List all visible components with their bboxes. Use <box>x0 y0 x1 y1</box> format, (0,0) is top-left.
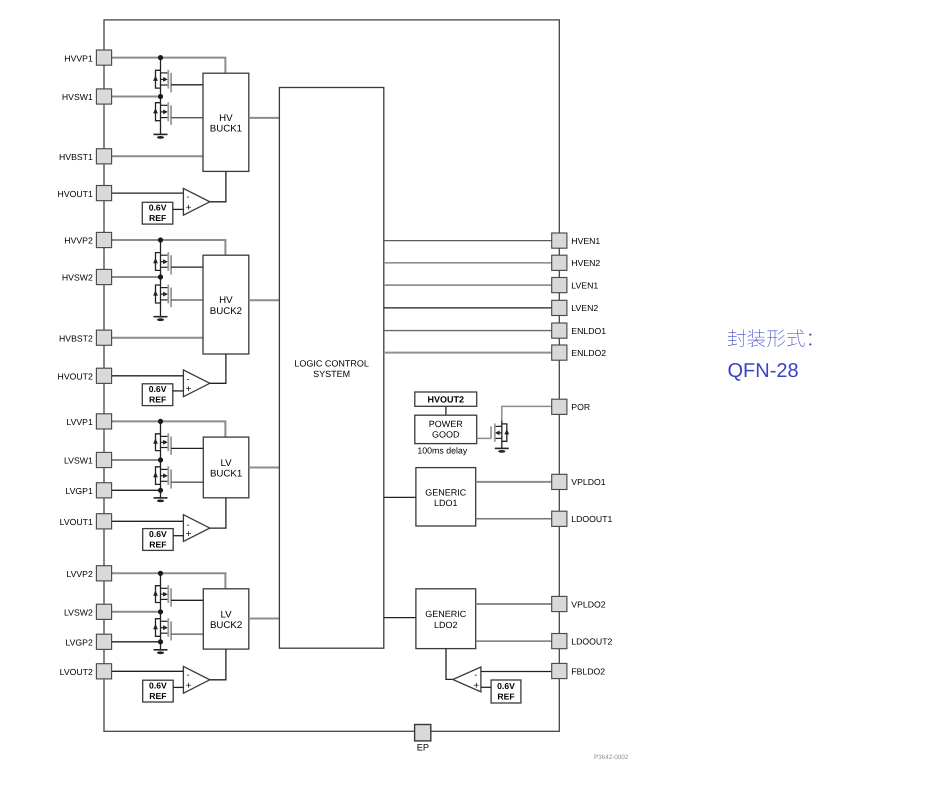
node SW2 junction <box>158 274 163 279</box>
node SW1 junction <box>158 94 163 99</box>
pin POR <box>552 399 590 414</box>
pin VPLDO2 <box>552 596 606 611</box>
ground section 4 <box>154 650 168 654</box>
svg-text:SYSTEM: SYSTEM <box>313 369 350 379</box>
svg-text:+: + <box>186 203 192 214</box>
wire LVVP3 supply rail <box>112 421 226 437</box>
svg-text:LVEN2: LVEN2 <box>571 303 598 313</box>
svg-text:LVVP1: LVVP1 <box>66 417 93 427</box>
pin LVEN2 <box>552 300 599 315</box>
wire LVGP4 gate drive <box>112 641 161 643</box>
svg-text:0.6V: 0.6V <box>149 203 167 213</box>
svg-text:LV: LV <box>221 458 233 469</box>
svg-text:LDO2: LDO2 <box>434 620 458 630</box>
svg-text:HV: HV <box>219 295 233 306</box>
svg-text:REF: REF <box>149 213 166 223</box>
pin ENLDO2 <box>552 345 607 360</box>
gate lead low-side MOSFET Q3b <box>171 481 203 483</box>
wire logic to LDO2 enable <box>384 617 416 619</box>
wire HVOUT2 feedback <box>112 375 184 377</box>
svg-text:HVSW2: HVSW2 <box>62 273 93 283</box>
wire LDO2 to feedback comparator <box>446 649 453 680</box>
wire SW node <box>112 96 161 98</box>
svg-text:POR: POR <box>571 402 590 412</box>
wire comparator output to HV BUCK2 <box>210 354 226 383</box>
wire FBLDO2 to comparator - input <box>481 671 552 673</box>
svg-text:FBLDO2: FBLDO2 <box>571 666 605 676</box>
svg-text:HVOUT1: HVOUT1 <box>58 189 93 199</box>
ground section 1 <box>154 134 168 138</box>
wire comparator output to HV BUCK1 <box>210 171 226 201</box>
gate lead high-side MOSFET Q1a <box>171 84 203 86</box>
IC outer boundary <box>104 20 559 731</box>
wire MOSFET channel string section 4 <box>160 573 162 650</box>
svg-text:LVOUT1: LVOUT1 <box>60 517 93 527</box>
ground section 3 <box>154 498 168 502</box>
pin VPLDO1 <box>552 474 606 489</box>
wire LDOOUT2 <box>476 640 552 642</box>
node VP4 junction <box>158 571 163 576</box>
wire LVGP3 gate drive <box>112 489 161 491</box>
block LV BUCK1 <box>203 437 249 498</box>
wire LVEN2 enable <box>384 307 552 309</box>
pin LVVP1 <box>66 414 111 429</box>
wire HV BUCK2 output to logic <box>249 299 280 301</box>
block HV BUCK2 <box>203 255 249 354</box>
wire HVEN1 enable <box>384 240 552 242</box>
wire ENLDO2 enable <box>384 352 552 354</box>
svg-text:0.6V: 0.6V <box>149 384 167 394</box>
pin LVGP1 <box>65 483 111 498</box>
svg-text:LVSW1: LVSW1 <box>64 456 93 466</box>
0.6V reference section 1 <box>142 202 173 224</box>
wire HVOUT2 box to POWER GOOD <box>445 406 447 415</box>
wire 0.6V REF to comparator + input <box>481 686 491 688</box>
gate lead high-side MOSFET Q4a <box>171 599 203 601</box>
svg-text:EP: EP <box>417 743 429 753</box>
svg-text:HVEN2: HVEN2 <box>571 258 600 268</box>
wire comparator output to LV BUCK2 <box>210 649 226 680</box>
svg-text:HVVP2: HVVP2 <box>64 236 93 246</box>
wire MOSFET channel string section 2 <box>160 240 162 317</box>
wire HVEN2 enable <box>384 262 552 264</box>
node VP3 junction <box>158 419 163 424</box>
node VP1 junction <box>158 55 163 60</box>
svg-text:ENLDO2: ENLDO2 <box>571 348 606 358</box>
svg-text:GENERIC: GENERIC <box>425 487 467 497</box>
svg-text:ENLDO1: ENLDO1 <box>571 326 606 336</box>
0.6V reference LDO2 <box>491 680 521 703</box>
block POWER GOOD <box>415 415 477 443</box>
wire LVOUT3 feedback <box>112 520 184 522</box>
ground POR switch <box>495 448 509 452</box>
svg-text:LVOUT2: LVOUT2 <box>60 667 93 677</box>
wire VPLDO2 <box>476 603 552 605</box>
pin HVBST2 <box>59 330 112 345</box>
wire VPLDO1 <box>476 481 552 483</box>
svg-text:HVBST1: HVBST1 <box>59 152 93 162</box>
svg-text:+: + <box>186 681 192 692</box>
node GP4 junction <box>158 639 163 644</box>
node SW4 junction <box>158 609 163 614</box>
error comparator section 4 <box>183 666 209 693</box>
wire 0.6V REF to comparator + input <box>173 390 184 392</box>
label package type (Chinese) <box>728 329 812 347</box>
svg-text:HV: HV <box>219 113 233 124</box>
wire HVOUT1 feedback <box>112 192 184 194</box>
wire MOSFET channel string section 1 <box>160 58 162 135</box>
wire HVBST2 bootstrap <box>112 337 203 339</box>
low-side MOSFET Q1b <box>153 102 171 125</box>
svg-text:BUCK1: BUCK1 <box>210 469 242 480</box>
svg-text:0.6V: 0.6V <box>497 681 515 691</box>
svg-text:BUCK2: BUCK2 <box>210 620 242 631</box>
wire SW node <box>112 459 161 461</box>
svg-text:REF: REF <box>149 539 166 549</box>
pin HVEN2 <box>552 255 601 270</box>
gate lead high-side MOSFET Q3a <box>171 447 203 449</box>
svg-text:REF: REF <box>149 691 166 701</box>
block GENERIC LDO1 <box>416 468 476 526</box>
wire 0.6V REF to comparator + input <box>173 208 184 210</box>
node SW3 junction <box>158 457 163 462</box>
svg-text:VPLDO1: VPLDO1 <box>571 477 605 487</box>
svg-text:QFN-28: QFN-28 <box>728 360 799 382</box>
wire LV BUCK2 output to logic <box>249 618 280 620</box>
wire logic to LDO1 enable <box>384 496 416 498</box>
pin LVSW2 <box>64 604 112 619</box>
0.6V reference section 2 <box>142 384 173 406</box>
svg-text:LOGIC CONTROL: LOGIC CONTROL <box>294 358 369 368</box>
wire LVOUT4 feedback <box>112 670 184 672</box>
pin HVSW1 <box>62 89 112 104</box>
transistor Q5 POR open-drain <box>491 421 509 449</box>
pin LDOOUT2 <box>552 634 613 649</box>
pin LVGP2 <box>65 634 111 649</box>
feedback comparator LDO2 <box>453 667 481 692</box>
ground section 2 <box>154 317 168 321</box>
wire HV BUCK1 output to logic <box>249 117 280 119</box>
svg-text:0.6V: 0.6V <box>149 681 167 691</box>
wire HVBST1 bootstrap <box>112 155 203 157</box>
pin HVOUT2 <box>58 368 112 383</box>
pin ENLDO1 <box>552 323 607 338</box>
0.6V reference section 4 <box>143 680 174 702</box>
block HV BUCK1 <box>203 73 249 171</box>
error comparator section 3 <box>183 515 209 542</box>
gate lead low-side MOSFET Q2b <box>171 299 203 301</box>
wire LVVP4 supply rail <box>112 573 226 589</box>
wire LDOOUT1 <box>476 518 552 520</box>
svg-text:LV: LV <box>221 610 233 621</box>
pin FBLDO2 <box>552 663 606 678</box>
gate lead low-side MOSFET Q1b <box>171 117 203 119</box>
svg-text:100ms delay: 100ms delay <box>417 445 467 455</box>
svg-text:LVVP2: LVVP2 <box>66 569 93 579</box>
wire SW node <box>112 611 161 613</box>
error comparator section 1 <box>183 188 209 215</box>
wire 0.6V REF to comparator + input <box>173 535 183 537</box>
svg-text:0.6V: 0.6V <box>149 529 167 539</box>
svg-text:P3642-0002: P3642-0002 <box>594 754 629 761</box>
block LOGIC CONTROL SYSTEM U1 <box>279 88 383 649</box>
svg-text:POWER: POWER <box>429 419 464 429</box>
svg-text:LVSW2: LVSW2 <box>64 608 93 618</box>
high-side MOSFET Q3a <box>153 433 171 455</box>
pin HVOUT1 <box>58 186 112 201</box>
svg-text:LDOOUT1: LDOOUT1 <box>571 514 612 524</box>
gate lead low-side MOSFET Q4b <box>171 633 203 635</box>
gate lead high-side MOSFET Q2a <box>171 266 203 268</box>
node VP2 junction <box>158 237 163 242</box>
pin LVVP2 <box>66 566 111 581</box>
svg-text:LVEN1: LVEN1 <box>571 280 598 290</box>
svg-text:VPLDO2: VPLDO2 <box>571 599 605 609</box>
node HVOUT2 sense box <box>415 392 477 406</box>
pin HVSW2 <box>62 269 112 284</box>
pin HVEN1 <box>552 233 601 248</box>
svg-text:HVVP1: HVVP1 <box>64 53 93 63</box>
svg-text:LDOOUT2: LDOOUT2 <box>571 636 612 646</box>
node GP3 junction <box>158 488 163 493</box>
svg-text:-: - <box>187 374 190 384</box>
error comparator section 2 <box>183 370 209 397</box>
svg-text:LDO1: LDO1 <box>434 498 458 508</box>
pin LVOUT1 <box>60 514 112 529</box>
low-side MOSFET Q2b <box>153 285 171 308</box>
svg-text:-: - <box>187 670 190 680</box>
svg-text:LVGP1: LVGP1 <box>65 486 93 496</box>
svg-text:HVBST2: HVBST2 <box>59 333 93 343</box>
svg-text:REF: REF <box>497 691 514 701</box>
wire ENLDO1 enable <box>384 330 552 332</box>
svg-text:+: + <box>186 529 192 540</box>
pin EP exposed pad <box>415 725 431 753</box>
wire comparator output to LV BUCK1 <box>210 498 226 528</box>
svg-text:GOOD: GOOD <box>432 430 460 440</box>
wire POWER GOOD gate drive <box>477 437 491 439</box>
svg-text:HVSW1: HVSW1 <box>62 92 93 102</box>
svg-text:HVOUT2: HVOUT2 <box>428 394 465 404</box>
svg-text:GENERIC: GENERIC <box>425 609 467 619</box>
wire HVVP2 supply rail <box>112 240 226 255</box>
pin LVEN1 <box>552 278 599 293</box>
high-side MOSFET Q4a <box>153 585 171 607</box>
svg-text:HVOUT2: HVOUT2 <box>58 372 93 382</box>
svg-text:-: - <box>187 191 190 201</box>
pin LVSW1 <box>64 452 112 467</box>
wire LVEN1 enable <box>384 284 552 286</box>
pin HVVP1 <box>64 50 111 65</box>
high-side MOSFET Q1a <box>153 70 171 93</box>
svg-text:LVGP2: LVGP2 <box>65 638 93 648</box>
svg-text:HVEN1: HVEN1 <box>571 236 600 246</box>
wire 0.6V REF to comparator + input <box>173 686 183 688</box>
low-side MOSFET Q3b <box>153 466 171 488</box>
low-side MOSFET Q4b <box>153 618 171 640</box>
svg-text:BUCK2: BUCK2 <box>210 306 242 317</box>
pin HVVP2 <box>64 232 111 247</box>
wire SW node <box>112 276 161 278</box>
wire HVVP1 supply rail <box>112 58 226 74</box>
block GENERIC LDO2 <box>416 589 476 649</box>
svg-text:-: - <box>474 670 477 680</box>
wire MOSFET channel string section 3 <box>160 421 162 498</box>
pin LDOOUT1 <box>552 511 613 526</box>
high-side MOSFET Q2a <box>153 252 171 275</box>
wire LV BUCK1 output to logic <box>249 467 280 469</box>
svg-text:BUCK1: BUCK1 <box>210 124 242 135</box>
pin HVBST1 <box>59 149 112 164</box>
svg-text:REF: REF <box>149 395 166 405</box>
pin LVOUT2 <box>60 664 112 679</box>
block LV BUCK2 <box>203 589 249 649</box>
svg-text:+: + <box>186 384 192 395</box>
wire POR drain to pin <box>502 406 552 420</box>
0.6V reference section 3 <box>143 529 174 551</box>
svg-text:+: + <box>473 681 479 692</box>
